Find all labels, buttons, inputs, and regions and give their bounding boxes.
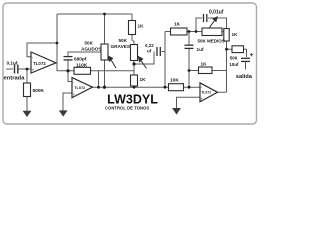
svg-text:+: +: [32, 68, 35, 73]
wire 1uf column: [188, 32, 190, 88]
wire 0,22uf branch: [134, 52, 165, 65]
junction treble pot lead on output rail: [103, 86, 106, 89]
svg-text:50K: 50K: [85, 41, 94, 46]
svg-text:680pf: 680pf: [74, 57, 87, 62]
junction top bus / treble pot lead: [103, 13, 106, 16]
resistor R3 1K (top of bass column): [129, 21, 136, 35]
svg-text:CONTROL DE TONOS: CONTROL DE TONOS: [105, 105, 149, 110]
svg-text:salida: salida: [236, 74, 253, 80]
potentiometer P1 wiper arrow: [108, 56, 116, 68]
svg-text:10uf: 10uf: [229, 62, 239, 67]
svg-text:110K: 110K: [76, 62, 88, 68]
svg-text:10K: 10K: [170, 78, 179, 84]
junction 680pf / U1a output rail: [66, 69, 69, 72]
wire input: [6, 68, 31, 70]
potentiometer P3 50K MEDIOS body: [202, 28, 222, 36]
junction at input / 500K tap: [26, 68, 29, 71]
svg-text:0,22: 0,22: [145, 43, 154, 48]
svg-text:1K: 1K: [232, 32, 239, 37]
op-amp U1a: [31, 52, 56, 73]
wire 680pf to treble pot top: [68, 52, 101, 57]
svg-text:GRAVES: GRAVES: [111, 44, 130, 49]
junction output column / 500 ohm branch: [225, 48, 228, 51]
wire treble pot bottom lead: [104, 60, 106, 87]
junction bass pot bottom / 0,22uf branch: [132, 62, 135, 65]
resistor R6 10K (output rail): [169, 84, 184, 91]
wire 500K drop: [26, 69, 28, 111]
capacitor C6 polarity plus: [250, 53, 253, 56]
svg-text:TL072: TL072: [33, 61, 46, 66]
junction 1uf column on medios row: [188, 30, 191, 33]
wire U1a output column to top bus: [57, 14, 68, 71]
wire output column right: [218, 18, 227, 92]
svg-text:1K: 1K: [174, 22, 181, 27]
capacitor C5 0,01uf: [204, 14, 207, 22]
wire U1a feedback loop: [27, 43, 57, 69]
wire U1b plus input to ground: [63, 93, 72, 111]
svg-text:1uf: 1uf: [197, 47, 204, 52]
ground under U1b: [59, 110, 68, 116]
wire medios row: [165, 31, 224, 33]
svg-text:50K MEDIOS: 50K MEDIOS: [198, 39, 225, 44]
wire output rail: [93, 86, 201, 88]
capacitor C2 680pf: [64, 57, 73, 60]
junction U1c inverting node on rail: [188, 86, 191, 89]
wire mid column x165: [164, 32, 166, 88]
svg-text:1K: 1K: [201, 61, 208, 66]
potentiometer P1 50K AGUDOS body: [101, 44, 108, 60]
op-amp U1c: [200, 83, 218, 102]
ground under U1c: [172, 108, 181, 115]
svg-text:TL072: TL072: [201, 91, 211, 95]
resistor R9 500: [232, 46, 244, 53]
svg-text:50K: 50K: [119, 38, 128, 43]
wire bass pot bottom lead: [133, 61, 135, 88]
svg-text:entrada: entrada: [4, 75, 26, 81]
wire salida stem: [245, 61, 247, 69]
wire bass column upper: [132, 14, 134, 45]
wire 0,01uf riser: [196, 18, 227, 32]
op-amp U1b: [72, 78, 93, 98]
junction 0,01uf riser on medios row: [195, 30, 198, 33]
svg-text:0,01uf: 0,01uf: [209, 10, 224, 16]
junction 1uf column / U1c feedback: [188, 69, 191, 72]
svg-text:500: 500: [230, 55, 238, 60]
capacitor C3 0,22uf: [157, 47, 160, 56]
svg-text:uf: uf: [147, 49, 152, 54]
svg-text:TL072: TL072: [74, 86, 85, 90]
resistor R2 110K: [74, 67, 91, 74]
ground under 500K: [23, 111, 32, 117]
junction U1a feedback / top bus: [56, 42, 59, 45]
junction U1b feedback drop on output rail: [97, 86, 100, 89]
resistor R4 1K (below bass pot): [131, 75, 138, 86]
wire 500 ohm leads: [227, 49, 247, 57]
capacitor C4 1uf: [185, 45, 194, 48]
wire 680pf stem and U1b inverting column: [68, 60, 72, 82]
svg-text:+: +: [73, 92, 76, 97]
junction x165 column on output rail: [164, 86, 167, 89]
svg-text:1K: 1K: [140, 77, 147, 82]
wire U1c feedback: [189, 70, 227, 72]
capacitor C1 0,1uf input: [15, 65, 18, 74]
resistor R7 1K (U1c feedback): [199, 67, 213, 74]
junction 1K bass leg on output rail: [133, 86, 136, 89]
wire treble pot top lead: [104, 14, 106, 44]
potentiometer P2 50K GRAVES body: [131, 45, 138, 61]
svg-text:AGUDOS: AGUDOS: [81, 46, 102, 51]
wire top bus: [57, 13, 132, 15]
resistor R5 1K (medios series): [171, 28, 188, 35]
resistor R8 1K (top right): [224, 29, 229, 42]
resistor R1 500K: [24, 83, 31, 97]
svg-text:0,1uf: 0,1uf: [7, 61, 18, 66]
wire U1c plus input to ground: [177, 97, 201, 108]
potentiometer P2 wiper arrow: [138, 57, 146, 69]
svg-text:500K: 500K: [33, 88, 45, 94]
capacitor C6 10uf output: [241, 58, 250, 61]
svg-text:1K: 1K: [138, 23, 145, 28]
wire mid rail y70.8: [68, 70, 134, 72]
potentiometer P3 wiper arrow: [210, 17, 218, 28]
wire U1b feedback drop: [98, 71, 100, 87]
